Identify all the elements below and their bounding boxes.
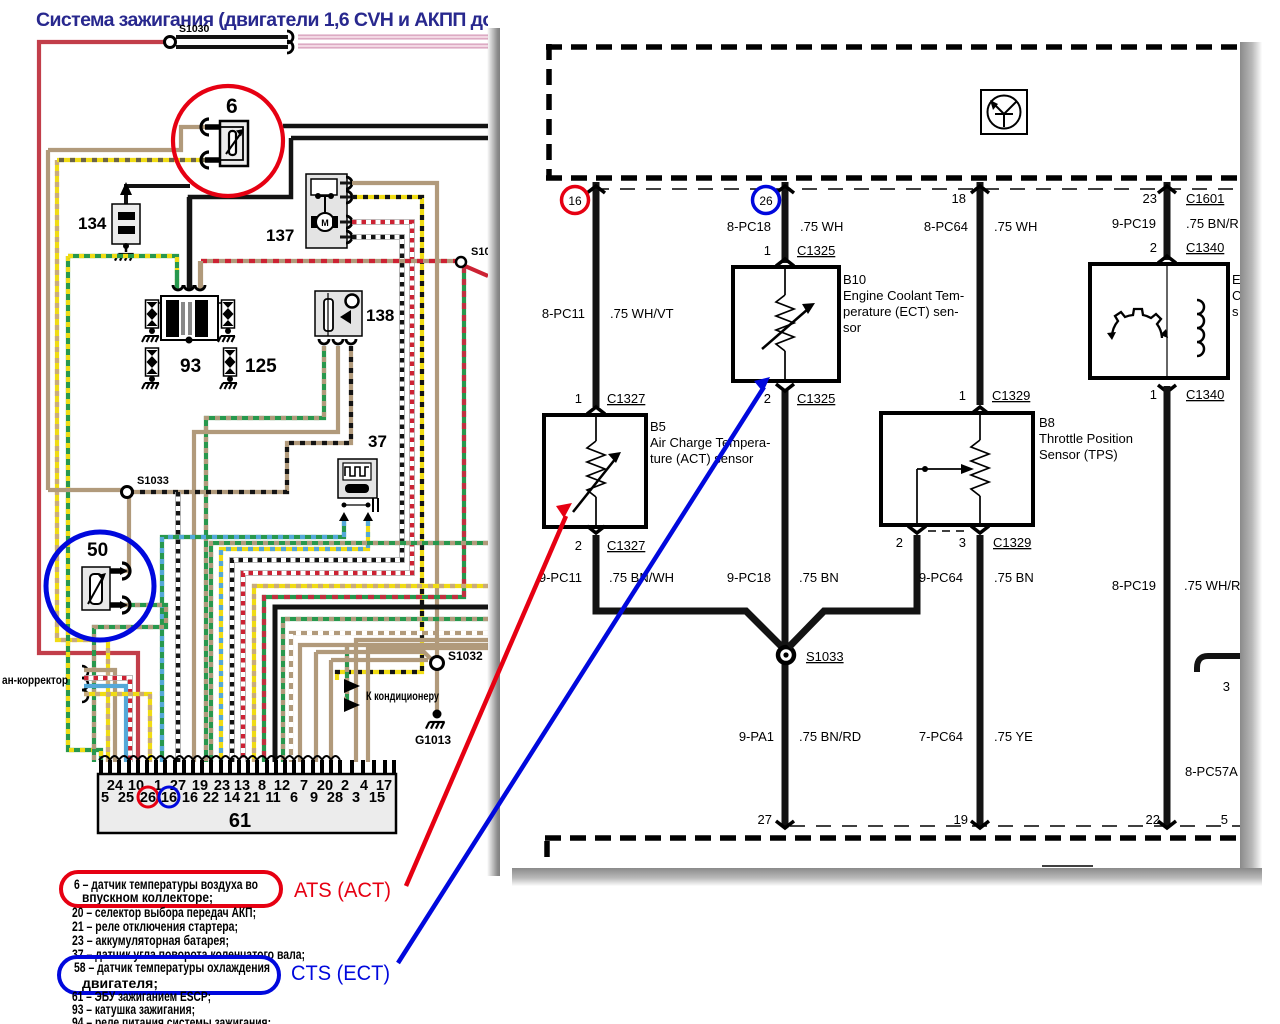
svg-text:perature (ECT) sen-: perature (ECT) sen- xyxy=(843,304,959,319)
svg-text:134: 134 xyxy=(78,214,107,233)
svg-text:93: 93 xyxy=(180,356,201,377)
svg-text:8-PC18: 8-PC18 xyxy=(727,219,771,234)
svg-text:C1329: C1329 xyxy=(993,535,1031,550)
svg-text:3: 3 xyxy=(352,790,360,806)
svg-text:впускном коллекторе;: впускном коллекторе; xyxy=(82,890,213,905)
svg-text:137: 137 xyxy=(266,226,294,245)
svg-text:ture (ACT) sensor: ture (ACT) sensor xyxy=(650,451,754,466)
svg-text:C1601: C1601 xyxy=(1186,191,1224,206)
svg-text:CTS (ECT): CTS (ECT) xyxy=(291,962,390,985)
svg-text:G1013: G1013 xyxy=(415,733,451,747)
svg-text:23 – аккумуляторная батарея;: 23 – аккумуляторная батарея; xyxy=(72,933,229,948)
svg-text:2: 2 xyxy=(764,391,771,406)
svg-text:C1327: C1327 xyxy=(607,391,645,406)
svg-text:ан-корректор: ан-корректор xyxy=(2,673,68,687)
svg-text:B8: B8 xyxy=(1039,415,1055,430)
svg-text:27: 27 xyxy=(758,812,772,827)
svg-text:2: 2 xyxy=(1150,240,1157,255)
svg-text:14: 14 xyxy=(224,790,240,806)
svg-text:Engine Coolant Tem-: Engine Coolant Tem- xyxy=(843,288,964,303)
svg-text:21: 21 xyxy=(244,790,260,806)
svg-text:Throttle Position: Throttle Position xyxy=(1039,431,1133,446)
svg-text:11: 11 xyxy=(265,790,280,806)
svg-text:.75 WH/VT: .75 WH/VT xyxy=(610,306,674,321)
svg-text:9-PC19: 9-PC19 xyxy=(1112,216,1156,231)
svg-text:22: 22 xyxy=(1146,812,1160,827)
svg-text:25: 25 xyxy=(118,790,134,806)
svg-text:2: 2 xyxy=(575,538,582,553)
svg-text:8-PC11: 8-PC11 xyxy=(542,306,585,321)
svg-text:К кондиционеру: К кондиционеру xyxy=(366,689,439,703)
svg-text:9: 9 xyxy=(310,790,318,806)
svg-text:.75 WH: .75 WH xyxy=(800,219,843,234)
svg-text:C1340: C1340 xyxy=(1186,387,1224,402)
svg-text:6: 6 xyxy=(290,790,298,806)
svg-text:138: 138 xyxy=(366,306,394,325)
svg-text:S1030: S1030 xyxy=(179,23,210,35)
svg-text:.75 BN: .75 BN xyxy=(799,570,839,585)
svg-text:C1327: C1327 xyxy=(607,538,645,553)
svg-text:.75 YE: .75 YE xyxy=(994,729,1033,744)
svg-text:37: 37 xyxy=(368,432,387,451)
svg-text:C1340: C1340 xyxy=(1186,240,1224,255)
svg-text:9-PC64: 9-PC64 xyxy=(919,570,963,585)
svg-text:5: 5 xyxy=(1221,812,1228,827)
svg-text:B10: B10 xyxy=(843,272,866,287)
svg-text:94 – реле питания системы зажи: 94 – реле питания системы зажигания; xyxy=(72,1015,271,1024)
svg-text:125: 125 xyxy=(245,356,277,377)
svg-text:C: C xyxy=(1232,288,1241,303)
svg-text:26: 26 xyxy=(759,194,773,208)
svg-text:S1033: S1033 xyxy=(137,475,169,487)
svg-text:C1329: C1329 xyxy=(992,388,1030,403)
svg-text:B5: B5 xyxy=(650,419,666,434)
svg-text:.75 BN: .75 BN xyxy=(994,570,1034,585)
svg-text:1: 1 xyxy=(764,243,771,258)
svg-text:E: E xyxy=(1232,272,1241,287)
svg-text:S1032: S1032 xyxy=(448,649,483,663)
svg-text:Sensor (TPS): Sensor (TPS) xyxy=(1039,447,1118,462)
svg-text:16: 16 xyxy=(568,194,582,208)
svg-text:M: M xyxy=(321,218,329,228)
svg-text:8-PC57A: 8-PC57A xyxy=(1185,764,1238,779)
svg-text:7-PC64: 7-PC64 xyxy=(919,729,963,744)
svg-text:9-PC11: 9-PC11 xyxy=(539,570,582,585)
svg-text:s: s xyxy=(1232,304,1239,319)
svg-text:1: 1 xyxy=(1150,387,1157,402)
svg-text:.75 WH/R: .75 WH/R xyxy=(1184,578,1240,593)
svg-text:1: 1 xyxy=(959,388,966,403)
svg-text:3: 3 xyxy=(959,535,966,550)
svg-text:sor: sor xyxy=(843,320,862,335)
svg-text:.75 BN/R: .75 BN/R xyxy=(1186,216,1239,231)
svg-text:22: 22 xyxy=(203,790,219,806)
svg-text:C1325: C1325 xyxy=(797,391,835,406)
svg-text:18: 18 xyxy=(952,191,966,206)
svg-text:Система зажигания (двигатели 1: Система зажигания (двигатели 1,6 CVH и А… xyxy=(36,9,520,31)
svg-text:50: 50 xyxy=(87,540,108,561)
svg-text:1: 1 xyxy=(575,391,582,406)
svg-text:3: 3 xyxy=(1223,679,1230,694)
svg-text:9-PC18: 9-PC18 xyxy=(727,570,771,585)
svg-text:Air Charge Tempera-: Air Charge Tempera- xyxy=(650,435,770,450)
svg-text:28: 28 xyxy=(327,790,343,806)
svg-text:S1033: S1033 xyxy=(806,649,844,664)
svg-text:61: 61 xyxy=(229,810,251,832)
svg-text:ATS (ACT): ATS (ACT) xyxy=(294,879,391,902)
svg-text:21 – реле отключения стартера;: 21 – реле отключения стартера; xyxy=(72,919,238,934)
svg-text:.75 WH: .75 WH xyxy=(994,219,1037,234)
svg-text:8-PC19: 8-PC19 xyxy=(1112,578,1156,593)
svg-text:4: 4 xyxy=(360,778,368,794)
svg-text:15: 15 xyxy=(369,790,385,806)
svg-text:7: 7 xyxy=(300,778,308,794)
svg-text:9-PA1: 9-PA1 xyxy=(739,729,774,744)
svg-text:2: 2 xyxy=(896,535,903,550)
svg-text:.75 BN/RD: .75 BN/RD xyxy=(799,729,861,744)
svg-text:19: 19 xyxy=(954,812,968,827)
svg-text:16: 16 xyxy=(182,790,198,806)
svg-text:23: 23 xyxy=(1143,191,1157,206)
svg-text:58 – датчик температуры охлажд: 58 – датчик температуры охлаждения xyxy=(74,960,270,975)
svg-text:5: 5 xyxy=(101,790,109,806)
svg-text:8-PC64: 8-PC64 xyxy=(924,219,968,234)
svg-text:20 – селектор выбора передач А: 20 – селектор выбора передач АКП; xyxy=(72,905,256,920)
svg-text:C1325: C1325 xyxy=(797,243,835,258)
svg-text:6: 6 xyxy=(226,95,238,118)
